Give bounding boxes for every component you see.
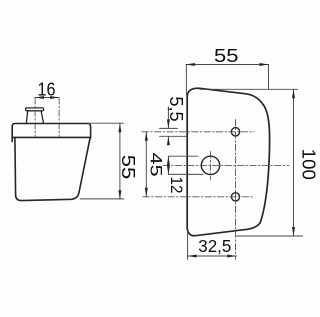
dimension 55 (front width) line: [186, 64, 269, 66]
rim bottom line: [12, 136, 90, 138]
top hole horizontal axis: [142, 131, 254, 133]
extension left (front 55): [185, 65, 187, 96]
lamp horizontal centre axis: [163, 164, 289, 166]
lamp front outline: [187, 88, 269, 236]
lamp rim (top band): [12, 124, 90, 142]
dimension 100 line: [293, 89, 295, 236]
top mounting hole: [231, 128, 239, 136]
svg-text:5,5: 5,5: [166, 96, 186, 121]
extension bottom (12): [168, 173, 203, 175]
bottom hole horizontal axis: [143, 196, 254, 198]
stub centre axis: [34, 98, 36, 138]
svg-text:12: 12: [167, 177, 186, 194]
extension bottom (100): [237, 235, 303, 237]
cable hole (12 dia): [201, 156, 219, 174]
dimension 5,5 upper extension: [160, 127, 178, 129]
arrow up 100: [292, 89, 295, 98]
extension left (32,5): [187, 231, 189, 260]
svg-text:100: 100: [298, 149, 317, 180]
arrow up 12: [167, 156, 170, 165]
extension top (100): [200, 88, 298, 90]
extension line top (side 55): [88, 122, 124, 124]
extension right (front 55): [268, 65, 270, 90]
arrow down 45: [145, 188, 148, 197]
arrow down 55 side: [118, 190, 121, 199]
arrow right of 16: [50, 96, 59, 99]
bottom mounting hole: [231, 193, 239, 201]
dimension 16 line: [35, 97, 59, 99]
dimension 5,5 lower extension: [160, 135, 187, 137]
dimension 45 line: [145, 132, 147, 197]
5,5 lower leader with up arrow: [167, 136, 169, 142]
svg-text:55: 55: [214, 46, 239, 66]
dimension 55 (side height) line: [119, 123, 121, 199]
second axis (hole axis projection): [58, 98, 60, 138]
svg-text:16: 16: [38, 80, 56, 100]
extension top (12): [168, 155, 198, 157]
arrow down 12: [167, 165, 170, 174]
arrow up 55 side: [118, 123, 121, 132]
svg-text:45: 45: [147, 153, 166, 177]
dimension 32,5 line: [188, 255, 237, 257]
extension line bottom (side 55): [80, 198, 124, 200]
5,5 upper leader with down arrow: [167, 107, 169, 128]
arrow left front 55: [186, 63, 195, 66]
svg-text:55: 55: [118, 155, 138, 180]
arrow up 45: [145, 132, 148, 141]
vertical axis through mounting holes: [235, 120, 237, 260]
stub neck left side: [26, 111, 27, 123]
svg-text:32,5: 32,5: [198, 236, 231, 256]
dimension 12 line: [167, 156, 169, 174]
stub neck right side: [41, 111, 43, 123]
arrow left of 16: [35, 96, 44, 99]
housing body outline: [15, 137, 90, 200]
cable hole vertical axis: [210, 152, 212, 180]
arrow down 100: [292, 227, 295, 236]
arrow right 32,5: [227, 255, 236, 258]
stub cap: [26, 108, 44, 111]
arrow left 32,5: [188, 255, 197, 258]
arrow right front 55: [260, 63, 269, 66]
